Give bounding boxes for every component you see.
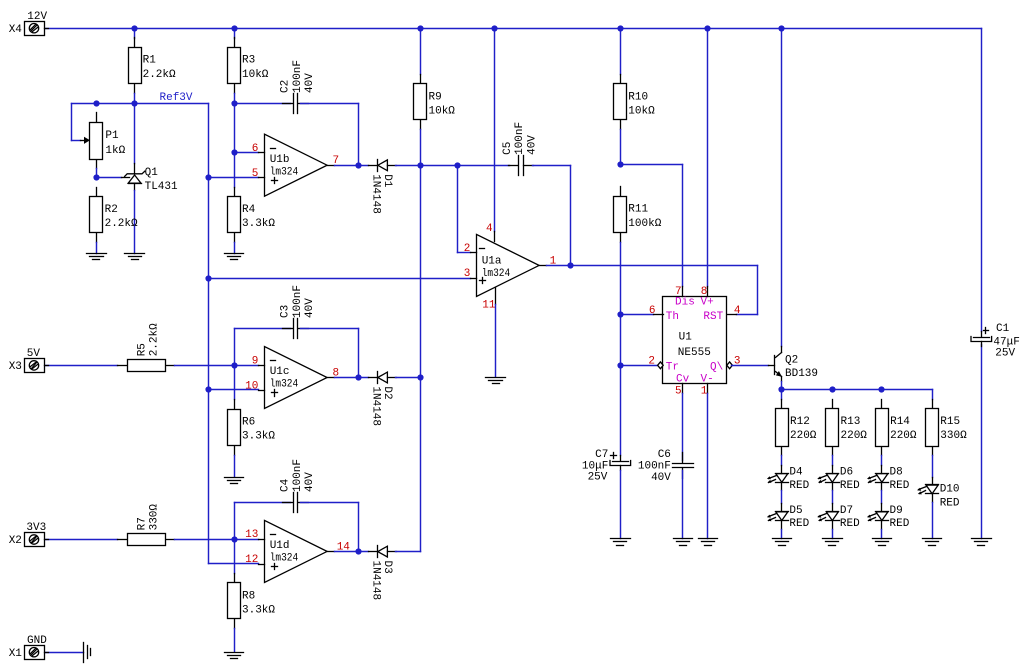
svg-text:11: 11 <box>482 299 496 311</box>
capacitor C7 <box>582 449 631 484</box>
wire U1b pin6 <box>235 152 259 154</box>
svg-text:D1: D1 <box>381 174 393 188</box>
wire D10 to ground <box>932 503 934 539</box>
svg-text:R15: R15 <box>940 416 960 428</box>
svg-text:D4: D4 <box>789 467 803 479</box>
svg-text:13: 13 <box>245 529 258 541</box>
svg-text:X4: X4 <box>9 24 23 36</box>
LED D4 <box>767 466 810 492</box>
svg-text:C3: C3 <box>280 305 292 318</box>
resistor R9 <box>414 75 456 130</box>
wire D5 to ground <box>781 530 783 539</box>
wire U1c out <box>335 377 369 379</box>
wire C1 to ground <box>981 345 983 539</box>
svg-text:C4: C4 <box>280 478 292 492</box>
wire rail to R10 <box>620 29 622 75</box>
wire Dis net <box>621 165 683 287</box>
svg-text:2.2kΩ: 2.2kΩ <box>149 323 161 356</box>
terminal X3 5V <box>9 348 49 373</box>
wire emitter rail <box>782 390 933 400</box>
svg-text:Q\: Q\ <box>710 362 723 374</box>
svg-text:1N4148: 1N4148 <box>370 174 382 214</box>
svg-text:Tr: Tr <box>666 362 679 374</box>
svg-text:12V: 12V <box>27 11 47 23</box>
wire Q2 emitter <box>781 382 783 390</box>
op-amp U1b <box>252 134 339 196</box>
transistor Q1 TL431 <box>122 104 179 193</box>
wire Q1 ref <box>97 177 122 179</box>
node rail-R10 <box>617 25 623 31</box>
svg-text:40V: 40V <box>651 472 671 484</box>
wire 12V rail right drop <box>981 29 983 332</box>
svg-text:8: 8 <box>701 286 708 298</box>
ground D7 <box>823 539 843 546</box>
svg-text:D9: D9 <box>890 505 903 517</box>
svg-text:100kΩ: 100kΩ <box>628 218 661 230</box>
svg-text:R2: R2 <box>105 204 118 216</box>
svg-text:9: 9 <box>252 355 259 367</box>
svg-text:D10: D10 <box>940 484 960 496</box>
node Ref3V-U1b+ <box>205 174 211 180</box>
capacitor C3 <box>280 285 316 339</box>
resistor R12 <box>776 400 817 456</box>
capacitor C1 <box>971 323 1020 360</box>
LED D6 <box>817 466 860 492</box>
resistor R11 <box>614 187 662 243</box>
diode D1 <box>369 160 397 214</box>
wire C7 to ground <box>620 471 622 539</box>
wire D8 to D9 <box>881 491 883 504</box>
ground C1 <box>972 539 992 546</box>
svg-text:R8: R8 <box>242 590 255 602</box>
wire R11 down <box>620 243 622 366</box>
svg-text:C2: C2 <box>280 80 292 93</box>
svg-text:RED: RED <box>840 518 860 530</box>
svg-text:RED: RED <box>840 480 860 492</box>
svg-text:RST: RST <box>703 311 723 323</box>
ground U1a pin11 <box>486 378 506 384</box>
svg-text:100nF: 100nF <box>292 60 304 93</box>
wire R5 to pin9 <box>175 365 259 367</box>
wire U1d pin12 <box>209 563 259 565</box>
wire rail to R9 <box>420 29 422 75</box>
svg-text:12: 12 <box>245 554 258 566</box>
node emitter <box>778 386 784 392</box>
svg-text:R13: R13 <box>841 416 861 428</box>
op-amp U1d <box>245 520 350 582</box>
svg-text:5: 5 <box>675 385 682 397</box>
wire P1 to node <box>96 169 98 178</box>
wire D6 to D7 <box>832 491 834 504</box>
wire C2node to pin6 <box>234 104 236 153</box>
svg-text:1kΩ: 1kΩ <box>105 145 125 157</box>
ground C7 <box>611 539 631 546</box>
svg-text:C6: C6 <box>658 449 671 461</box>
svg-text:6: 6 <box>649 305 656 317</box>
wire D4 to D5 <box>781 491 783 504</box>
label Ref3V <box>160 92 193 104</box>
svg-text:R7: R7 <box>136 517 148 530</box>
wire X1 to ground <box>45 652 84 654</box>
svg-text:X1: X1 <box>9 648 23 660</box>
svg-text:D2: D2 <box>381 386 393 399</box>
label P1 <box>105 130 125 157</box>
svg-text:U1a: U1a <box>482 256 502 268</box>
svg-text:25V: 25V <box>588 471 608 483</box>
resistor R4 <box>228 188 276 243</box>
svg-text:4: 4 <box>734 305 741 317</box>
LED D9 <box>867 504 910 531</box>
wire rail to Q2 collector <box>781 29 783 347</box>
wire U1c pin10 <box>209 389 259 391</box>
svg-text:BD139: BD139 <box>785 368 818 380</box>
node R5-C3-R6 <box>231 362 237 368</box>
LED D8 <box>867 466 910 492</box>
svg-text:Ref3V: Ref3V <box>160 92 193 104</box>
svg-text:R11: R11 <box>628 204 648 216</box>
node Ref3V-U1a+ <box>205 275 211 281</box>
wire R15 to D10 <box>932 456 934 478</box>
resistor R3 <box>228 38 269 94</box>
svg-text:U1d: U1d <box>270 540 290 552</box>
svg-text:40V: 40V <box>526 135 538 155</box>
wire OR line <box>420 130 422 552</box>
ground C6 <box>674 539 693 546</box>
wire D3 to OR line <box>396 551 421 553</box>
wire Tr node to C7 <box>620 366 622 456</box>
wire U1a pin3 <box>209 278 471 280</box>
svg-text:3.3kΩ: 3.3kΩ <box>242 431 275 443</box>
node emitter-R14 <box>878 386 884 392</box>
capacitor C6 <box>638 449 694 484</box>
resistor R1 <box>129 38 177 94</box>
svg-text:R5: R5 <box>136 343 148 356</box>
svg-text:X3: X3 <box>9 361 22 373</box>
wire R7 to pin13 <box>175 539 259 541</box>
node U1b-C2fb <box>355 162 361 168</box>
wire C4 right <box>301 503 359 552</box>
resistor R15 <box>926 400 968 456</box>
svg-text:U1b: U1b <box>270 154 290 166</box>
wire Tr net <box>621 365 658 367</box>
wire emitter to R12 <box>781 390 783 400</box>
wire node to R4 <box>234 153 236 188</box>
svg-text:2.2kΩ: 2.2kΩ <box>105 218 138 230</box>
node rail-U1a+V <box>491 25 497 31</box>
node Th <box>617 311 623 317</box>
svg-text:1N4148: 1N4148 <box>370 386 382 426</box>
terminal X1 GND <box>9 635 49 660</box>
node U1d-C4fb <box>355 548 361 554</box>
node rail-555V+ <box>704 25 710 31</box>
svg-text:220Ω: 220Ω <box>790 430 817 442</box>
node R10-R11-Dis <box>617 161 623 167</box>
wire RST riser <box>737 266 758 315</box>
node Ref3V-P1 <box>93 100 99 106</box>
svg-text:40V: 40V <box>304 73 316 93</box>
svg-text:R1: R1 <box>143 55 157 67</box>
node C5-left <box>454 162 460 168</box>
wire 12V rail <box>45 28 982 30</box>
wire C3 right <box>301 329 359 378</box>
svg-text:1: 1 <box>701 385 708 397</box>
svg-text:X2: X2 <box>9 535 22 547</box>
svg-text:R14: R14 <box>890 416 910 428</box>
svg-text:6: 6 <box>252 143 259 155</box>
op-amp U1c <box>245 347 339 409</box>
svg-text:100nF: 100nF <box>292 459 304 492</box>
node P1-R2-Q1ref <box>93 174 99 180</box>
wire R3 to C2 node <box>234 94 236 104</box>
svg-text:R6: R6 <box>242 416 255 428</box>
ground Q1 <box>125 254 145 260</box>
resistor R10 <box>614 75 656 130</box>
wire U1a out <box>547 265 758 267</box>
wire R14 to D8 <box>881 456 883 466</box>
wire R6 to ground <box>234 456 236 477</box>
wire C2 left <box>235 103 291 105</box>
svg-text:GND: GND <box>27 635 47 647</box>
svg-text:D6: D6 <box>840 467 853 479</box>
wire rail to R3 <box>234 29 236 39</box>
svg-text:D5: D5 <box>789 505 802 517</box>
svg-text:Q2: Q2 <box>785 354 798 366</box>
ground R4 <box>225 254 244 260</box>
svg-text:10kΩ: 10kΩ <box>628 106 655 118</box>
wire D9 to ground <box>881 530 883 539</box>
svg-text:220Ω: 220Ω <box>841 430 868 442</box>
svg-text:330Ω: 330Ω <box>149 504 161 531</box>
svg-text:NE555: NE555 <box>678 347 711 359</box>
svg-text:C1: C1 <box>996 323 1010 335</box>
svg-text:lm324: lm324 <box>270 553 299 565</box>
diode D3 <box>369 546 397 601</box>
svg-text:lm324: lm324 <box>482 268 511 280</box>
svg-text:RED: RED <box>890 480 910 492</box>
node rail-R1 <box>131 25 137 31</box>
wire Ref3V down to U1 inputs <box>208 104 210 564</box>
terminal X4 12V <box>9 11 49 36</box>
net Ref3V wire <box>72 104 209 141</box>
svg-text:2.2kΩ: 2.2kΩ <box>143 69 176 81</box>
svg-text:R9: R9 <box>429 91 442 103</box>
transistor Q2 BD139 <box>769 347 819 382</box>
capacitor C5 <box>502 122 538 176</box>
svg-text:V+: V+ <box>701 297 714 309</box>
wire V- to ground <box>707 394 709 539</box>
wire X3 to R5 <box>45 365 118 367</box>
wire C2 right <box>301 104 359 166</box>
node U1a-C5 <box>567 262 573 268</box>
ground D10 <box>923 539 942 546</box>
svg-text:D8: D8 <box>890 467 903 479</box>
LED D7 <box>817 504 860 531</box>
svg-text:2: 2 <box>464 243 471 255</box>
svg-text:U1c: U1c <box>270 366 290 378</box>
wire Q out <box>732 365 769 367</box>
svg-text:U1: U1 <box>679 331 693 343</box>
wire R13 to D6 <box>832 456 834 466</box>
wire R1 to Ref3V <box>134 94 136 104</box>
resistor R5 <box>118 323 175 372</box>
svg-text:10kΩ: 10kΩ <box>242 69 269 81</box>
resistor R13 <box>826 400 868 456</box>
node emitter-R13 <box>829 386 835 392</box>
svg-text:10: 10 <box>245 380 258 392</box>
node rail-R9 <box>417 25 423 31</box>
wire C6 to ground <box>682 471 684 539</box>
svg-text:RED: RED <box>789 518 809 530</box>
terminal X2 3V3 <box>9 522 49 547</box>
svg-text:P1: P1 <box>105 130 119 142</box>
op-amp U1a <box>464 29 557 377</box>
ground D9 <box>873 539 892 546</box>
node R7-C4-R8 <box>231 536 237 542</box>
resistor R2 <box>90 188 139 243</box>
wire R4 to ground <box>234 243 236 254</box>
resistor R6 <box>228 400 276 456</box>
potentiometer P1 <box>81 113 103 169</box>
wire R8 to ground <box>234 629 236 652</box>
svg-text:3: 3 <box>464 268 471 280</box>
LED D10 <box>917 478 960 510</box>
svg-text:Cv: Cv <box>676 373 690 385</box>
IC U1 NE555 <box>648 286 741 398</box>
svg-text:40V: 40V <box>304 298 316 318</box>
wire Q1 to ground <box>134 191 136 254</box>
svg-text:220Ω: 220Ω <box>890 430 917 442</box>
node R3-U1b- <box>231 149 237 155</box>
node D1-ORline <box>417 162 423 168</box>
node rail-Q2 <box>778 25 784 31</box>
svg-text:100nF: 100nF <box>638 460 671 472</box>
svg-text:4: 4 <box>486 223 493 235</box>
wire U1b pin5 <box>209 177 259 179</box>
svg-text:V-: V- <box>701 373 714 385</box>
wire rail to R1 <box>134 29 136 39</box>
svg-text:lm324: lm324 <box>270 166 299 178</box>
svg-text:100nF: 100nF <box>514 122 526 155</box>
node Ref3V-U1c+ <box>205 386 211 392</box>
wire D2 to OR line <box>396 377 421 379</box>
svg-text:3.3kΩ: 3.3kΩ <box>242 605 275 617</box>
node U1c-C3fb <box>355 374 361 380</box>
wire X2 to R7 <box>45 539 118 541</box>
ground X1 <box>84 643 91 663</box>
node rail-R3 <box>231 25 237 31</box>
svg-text:2: 2 <box>648 356 655 368</box>
wire Th net <box>621 314 654 316</box>
wire R2 to ground <box>96 243 98 254</box>
svg-text:C7: C7 <box>595 449 608 461</box>
svg-text:7: 7 <box>675 286 682 298</box>
wire 555 V+ <box>707 29 709 287</box>
wire C5 right <box>533 166 571 266</box>
svg-text:R4: R4 <box>242 204 256 216</box>
svg-text:5V: 5V <box>27 348 41 360</box>
node D2-ORline <box>417 374 423 380</box>
svg-text:D3: D3 <box>381 561 393 574</box>
ground R6 <box>225 478 244 484</box>
wire D7 to ground <box>832 530 834 539</box>
wire C4 feedback <box>235 503 291 540</box>
wire U1d out <box>335 551 369 553</box>
resistor R7 <box>118 504 175 546</box>
svg-text:Q1: Q1 <box>145 167 159 179</box>
diode D2 <box>369 372 397 427</box>
svg-text:R12: R12 <box>790 416 810 428</box>
svg-text:10kΩ: 10kΩ <box>429 106 456 118</box>
svg-text:RED: RED <box>789 480 809 492</box>
svg-text:100nF: 100nF <box>292 285 304 318</box>
wire U1b out <box>335 165 369 167</box>
svg-text:R10: R10 <box>628 91 648 103</box>
svg-text:5: 5 <box>252 168 259 180</box>
svg-text:3.3kΩ: 3.3kΩ <box>242 218 275 230</box>
resistor R8 <box>228 574 276 629</box>
node Ref3V-R1 <box>131 100 137 106</box>
wire node to R6 <box>234 366 236 400</box>
ground D5 <box>773 539 792 546</box>
capacitor C4 <box>280 459 316 513</box>
wire node to R8 <box>234 540 236 574</box>
node C2-R3 <box>231 100 237 106</box>
wire D1 to OR node <box>396 165 458 167</box>
wire C5 left <box>458 165 510 167</box>
svg-text:40V: 40V <box>304 472 316 492</box>
ground R2 <box>87 254 107 260</box>
ground R8 <box>225 653 244 659</box>
svg-text:1N4148: 1N4148 <box>370 561 382 601</box>
LED D5 <box>767 504 810 531</box>
svg-text:25V: 25V <box>995 348 1015 360</box>
wire C3 feedback <box>235 329 291 366</box>
svg-text:RED: RED <box>890 518 910 530</box>
wire U1a pin2 <box>458 166 471 253</box>
wire R12 to D4 <box>781 456 783 466</box>
capacitor C2 <box>280 60 316 114</box>
svg-text:lm324: lm324 <box>270 379 299 391</box>
wire R10 to Dis node <box>620 130 622 165</box>
svg-text:RED: RED <box>940 497 960 509</box>
ground 555 V- <box>699 539 718 546</box>
svg-text:R3: R3 <box>242 55 255 67</box>
wire Cv to C6 <box>682 394 684 461</box>
svg-text:Th: Th <box>666 311 679 323</box>
svg-text:Dis: Dis <box>675 297 695 309</box>
svg-text:C5: C5 <box>502 142 514 155</box>
svg-text:330Ω: 330Ω <box>940 430 967 442</box>
node Tr <box>617 362 623 368</box>
resistor R14 <box>876 400 917 456</box>
svg-text:TL431: TL431 <box>145 181 178 193</box>
svg-text:D7: D7 <box>840 505 853 517</box>
svg-text:3V3: 3V3 <box>26 522 46 534</box>
